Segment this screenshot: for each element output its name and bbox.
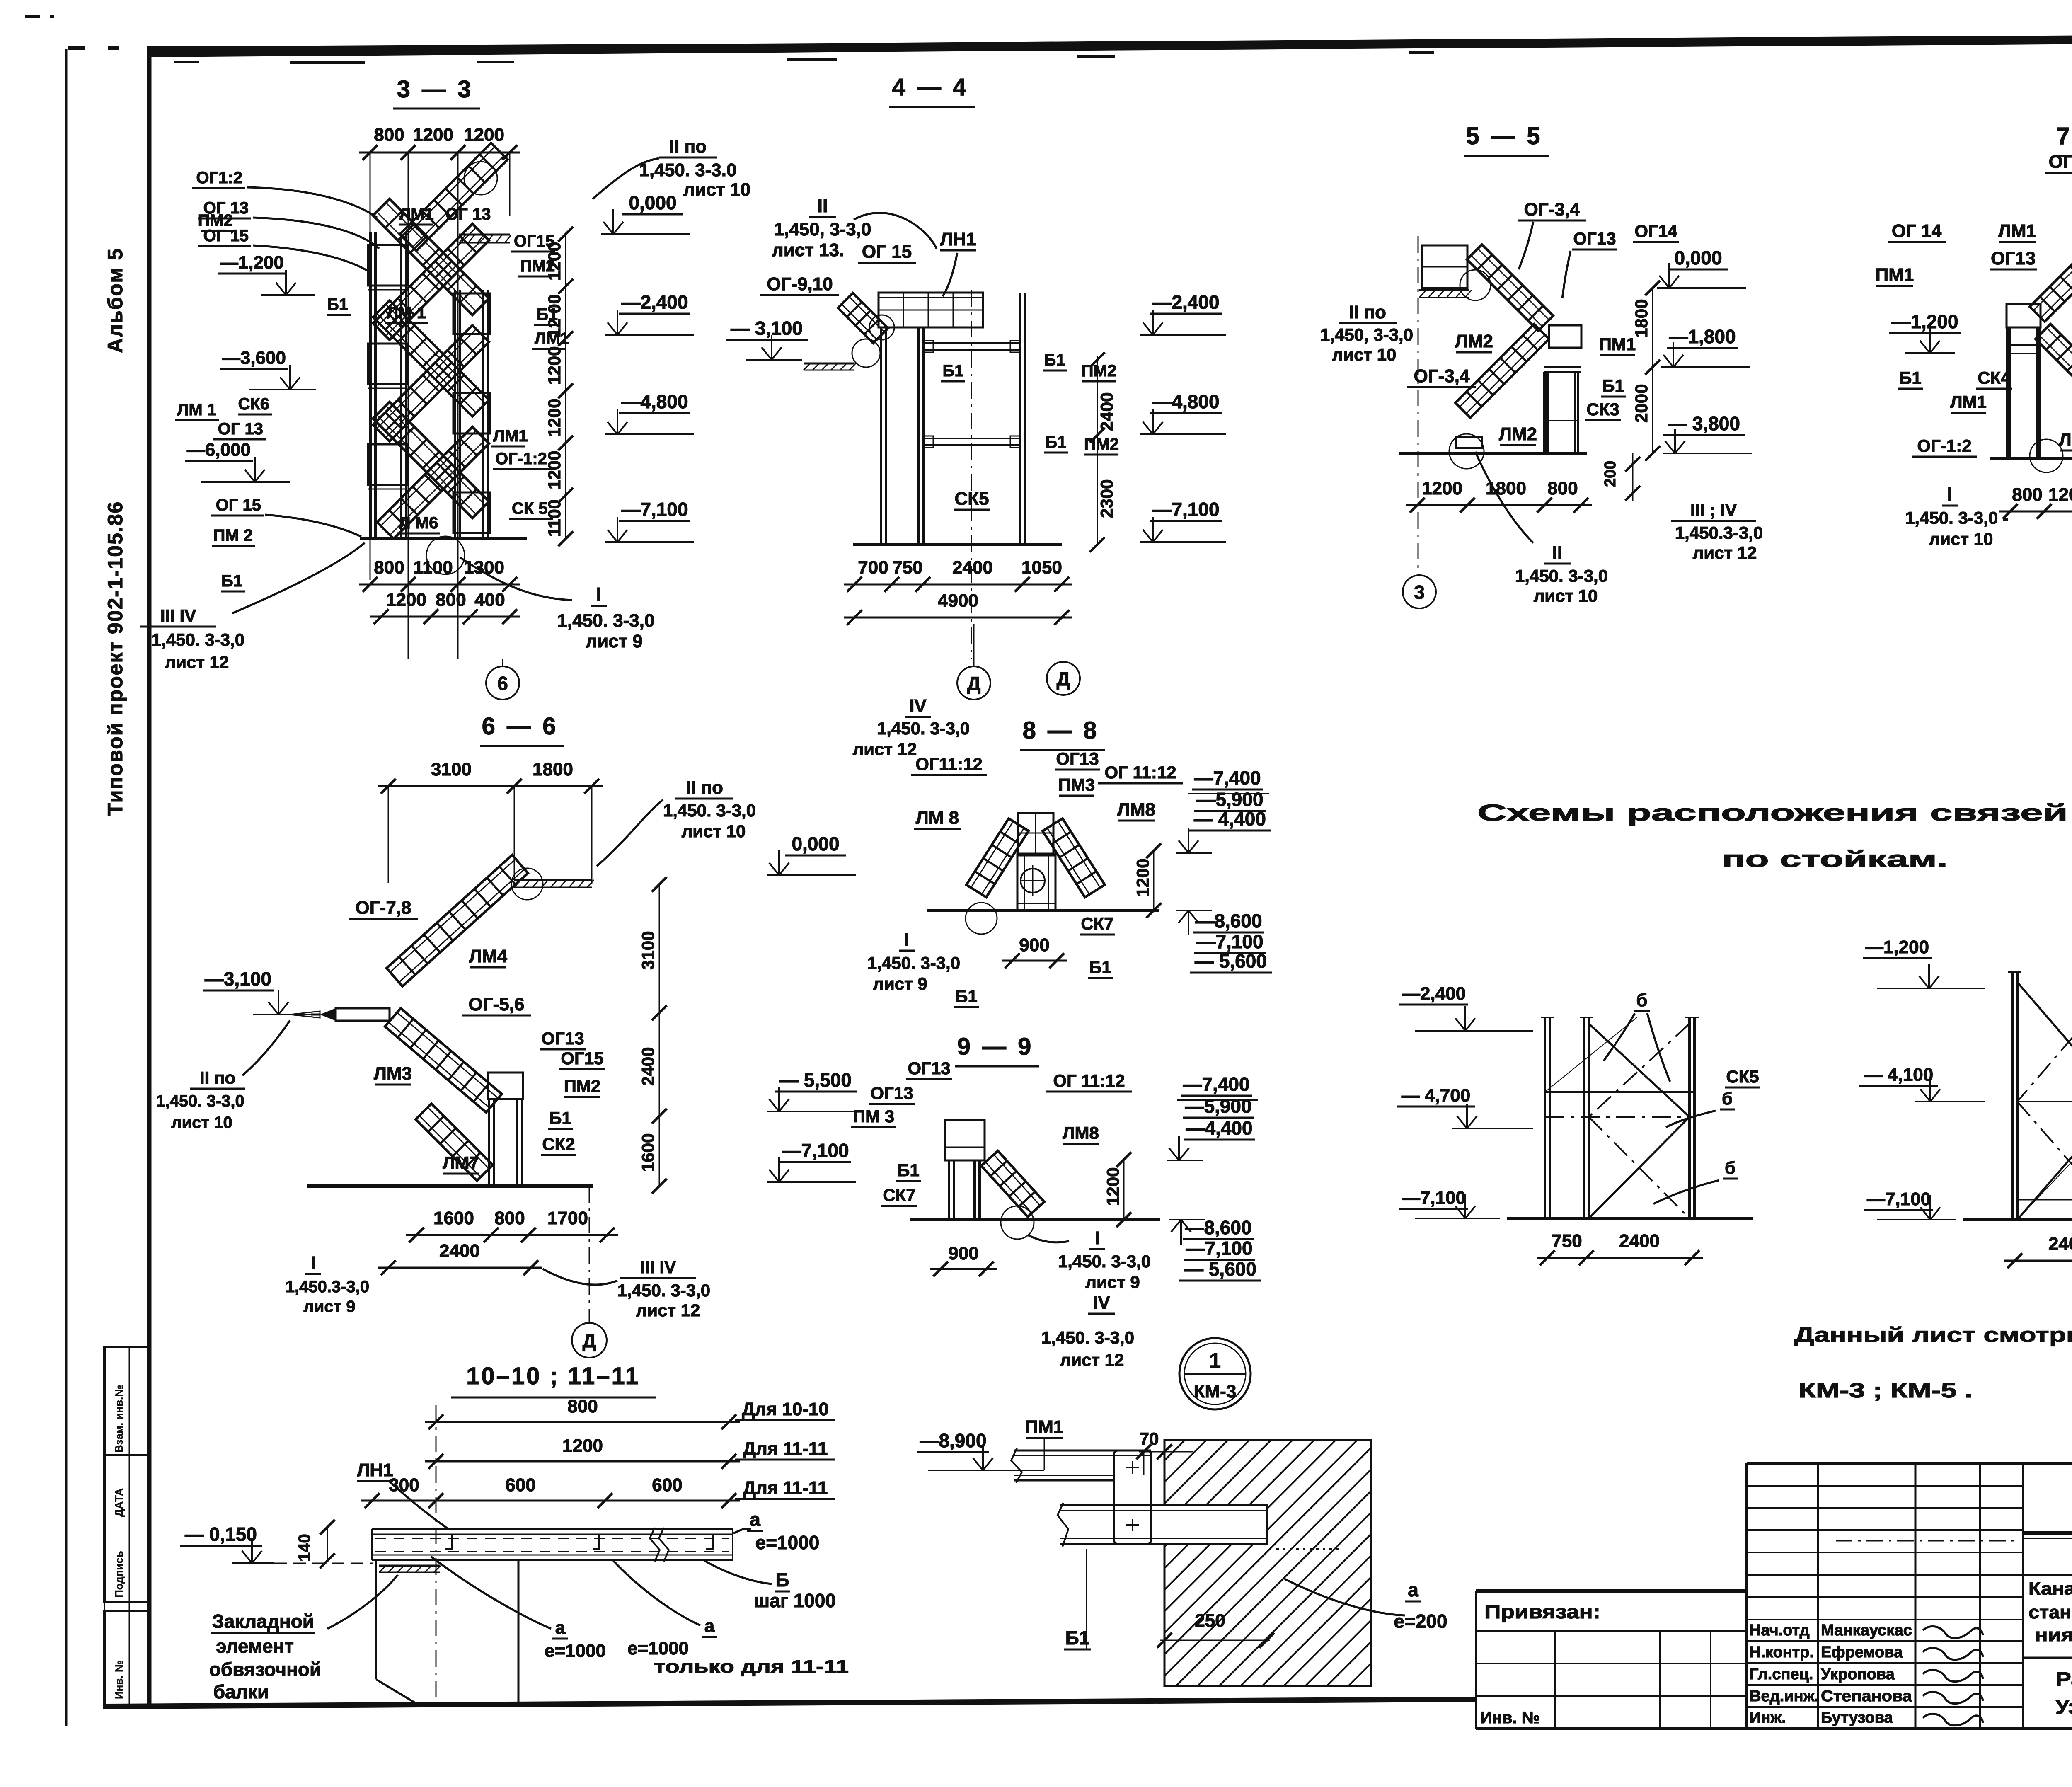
svg-text:Б1: Б1 xyxy=(1899,368,1922,387)
svg-text:—7,100: —7,100 xyxy=(1867,1189,1931,1209)
svg-text:а: а xyxy=(1408,1579,1418,1601)
svg-text:—6,000: —6,000 xyxy=(187,440,251,460)
svg-text:1,450. 3-3,0: 1,450. 3-3,0 xyxy=(1058,1252,1151,1271)
svg-text:140: 140 xyxy=(295,1534,314,1562)
svg-text:—3,600: —3,600 xyxy=(222,348,286,368)
svg-text:б: б xyxy=(1725,1158,1736,1177)
svg-text:4 — 4: 4 — 4 xyxy=(892,74,969,101)
svg-text:ЛМ3: ЛМ3 xyxy=(374,1063,412,1084)
svg-text:2400: 2400 xyxy=(2048,1234,2072,1254)
svg-text:Укропова: Укропова xyxy=(1821,1666,1895,1683)
svg-text:II по: II по xyxy=(686,777,723,798)
svg-text:ЛМ 1: ЛМ 1 xyxy=(387,304,426,322)
svg-text:Б1: Б1 xyxy=(1089,957,1111,977)
svg-text:станция при глубине заложе-: станция при глубине заложе- xyxy=(2028,1602,2072,1622)
svg-text:II: II xyxy=(817,195,828,216)
svg-text:1,450.3-3,0: 1,450.3-3,0 xyxy=(286,1278,369,1296)
svg-text:б: б xyxy=(1722,1089,1733,1108)
svg-text:— 5,600: — 5,600 xyxy=(1195,950,1267,972)
svg-text:ОГ14: ОГ14 xyxy=(1634,221,1677,241)
svg-text:ния коллектора 5,5 м.: ния коллектора 5,5 м. xyxy=(2035,1625,2072,1645)
svg-text:—1,800: —1,800 xyxy=(1669,326,1736,347)
svg-text:ОГ11:12: ОГ11:12 xyxy=(915,754,983,774)
svg-text:—4,800: —4,800 xyxy=(1152,391,1219,412)
svg-text:1200: 1200 xyxy=(1103,1167,1123,1206)
svg-text:балки: балки xyxy=(213,1681,269,1702)
svg-text:Разрезы 3-3 ÷ 11-11: Разрезы 3-3 ÷ 11-11 xyxy=(2055,1668,2072,1690)
svg-text:9 — 9: 9 — 9 xyxy=(957,1033,1034,1060)
svg-text:—7,100: —7,100 xyxy=(1196,931,1263,952)
svg-text:СК7: СК7 xyxy=(1081,914,1113,933)
svg-text:КМ-3: КМ-3 xyxy=(1194,1381,1237,1402)
svg-text:1,450, 3-3,0: 1,450, 3-3,0 xyxy=(1320,325,1413,344)
svg-text:лист 10: лист 10 xyxy=(1534,586,1598,605)
svg-text:лист 12: лист 12 xyxy=(1060,1350,1124,1370)
svg-text:1,450. 3-3,0: 1,450. 3-3,0 xyxy=(663,801,756,820)
svg-text:—7,100: —7,100 xyxy=(782,1140,849,1161)
svg-text:лист 10: лист 10 xyxy=(682,821,746,841)
svg-text:1200: 1200 xyxy=(2048,484,2072,505)
svg-text:б: б xyxy=(1636,990,1647,1010)
svg-text:1200: 1200 xyxy=(386,590,426,610)
svg-text:I: I xyxy=(1095,1228,1100,1248)
svg-text:— 3,100: — 3,100 xyxy=(731,317,803,339)
svg-text:только для 11-11: только для 11-11 xyxy=(654,1656,849,1677)
svg-text:лист 10: лист 10 xyxy=(171,1114,232,1132)
svg-text:ПМ3: ПМ3 xyxy=(1058,775,1095,794)
svg-text:лист 12: лист 12 xyxy=(853,739,917,759)
svg-text:8 — 8: 8 — 8 xyxy=(1023,717,1099,744)
svg-text:—7,100: —7,100 xyxy=(1402,1188,1466,1208)
svg-text:800: 800 xyxy=(567,1396,598,1417)
svg-text:1,450. 3-3,0: 1,450. 3-3,0 xyxy=(156,1092,244,1110)
svg-text:ПМ1: ПМ1 xyxy=(1599,334,1636,354)
svg-text:Б1: Б1 xyxy=(897,1160,920,1180)
svg-text:Канализационная насосная: Канализационная насосная xyxy=(2028,1579,2072,1599)
svg-text:1300: 1300 xyxy=(464,557,504,578)
svg-text:800: 800 xyxy=(436,590,466,610)
svg-text:лист 13.: лист 13. xyxy=(772,240,844,260)
svg-text:ЛМ 1: ЛМ 1 xyxy=(177,401,216,419)
svg-text:1: 1 xyxy=(1209,1349,1221,1372)
svg-text:Инж.: Инж. xyxy=(1750,1709,1786,1726)
svg-text:ОГ-3,4: ОГ-3,4 xyxy=(1414,366,1470,386)
svg-text:III IV: III IV xyxy=(640,1257,676,1277)
svg-text:2400: 2400 xyxy=(1619,1231,1660,1251)
svg-text:1,450. 3-3,0: 1,450. 3-3,0 xyxy=(867,953,960,973)
svg-text:ОГ 13: ОГ 13 xyxy=(445,205,491,223)
svg-text:е=1000: е=1000 xyxy=(755,1532,820,1553)
svg-text:—5,900: —5,900 xyxy=(1196,789,1263,810)
svg-text:ЛН1: ЛН1 xyxy=(357,1460,393,1480)
svg-text:6 — 6: 6 — 6 xyxy=(482,713,559,740)
svg-text:3100: 3100 xyxy=(431,759,472,780)
svg-text:ЛМ 8: ЛМ 8 xyxy=(916,808,959,828)
svg-text:800: 800 xyxy=(494,1208,525,1228)
svg-text:200: 200 xyxy=(1602,461,1619,487)
svg-text:10–10 ; 11–11: 10–10 ; 11–11 xyxy=(466,1363,640,1390)
svg-text:ПМ2: ПМ2 xyxy=(1082,362,1116,380)
svg-text:Б1: Б1 xyxy=(1044,351,1065,369)
svg-text:—4,400: —4,400 xyxy=(1186,1117,1252,1139)
svg-text:Для 11-11: Для 11-11 xyxy=(743,1478,828,1498)
svg-text:1800: 1800 xyxy=(1631,299,1651,338)
svg-text:—2,400: —2,400 xyxy=(1402,983,1466,1004)
svg-text:1,450. 3-3,0 -: 1,450. 3-3,0 - xyxy=(1905,508,2009,528)
svg-text:1,450. 3-3,0: 1,450. 3-3,0 xyxy=(877,719,970,738)
svg-text:—7,100: —7,100 xyxy=(1186,1237,1252,1259)
svg-text:ЛМ7: ЛМ7 xyxy=(443,1153,479,1172)
svg-text:Н.контр.: Н.контр. xyxy=(1750,1644,1814,1661)
svg-text:—7,100: —7,100 xyxy=(1152,499,1219,520)
svg-text:лист 12: лист 12 xyxy=(636,1300,700,1320)
svg-text:750: 750 xyxy=(1552,1231,1582,1251)
svg-text:ОГ 13: ОГ 13 xyxy=(218,420,263,438)
svg-text:ОГ 11:12: ОГ 11:12 xyxy=(1104,763,1176,782)
svg-text:Вед.инж.: Вед.инж. xyxy=(1750,1688,1819,1705)
svg-text:Б1: Б1 xyxy=(1602,376,1624,395)
svg-text:Ефремова: Ефремова xyxy=(1821,1644,1903,1661)
svg-text:—1,200: —1,200 xyxy=(1865,937,1929,957)
svg-text:СК 5: СК 5 xyxy=(512,499,548,518)
svg-text:800: 800 xyxy=(374,125,404,145)
svg-text:ОГ-1:2: ОГ-1:2 xyxy=(495,450,547,468)
svg-text:1600: 1600 xyxy=(433,1208,474,1228)
svg-text:—4,800: —4,800 xyxy=(621,391,688,412)
svg-text:1800: 1800 xyxy=(1486,478,1526,499)
svg-text:400: 400 xyxy=(474,590,505,610)
svg-text:— 5,600: — 5,600 xyxy=(1184,1258,1256,1280)
svg-text:1200: 1200 xyxy=(1422,478,1462,499)
svg-text:1100: 1100 xyxy=(413,557,453,578)
svg-text:—1,200: —1,200 xyxy=(220,252,284,273)
svg-text:е=1000: е=1000 xyxy=(627,1638,689,1659)
svg-text:лист 9: лист 9 xyxy=(1085,1272,1140,1292)
svg-text:Данный лист смотри совместно с: Данный лист смотри совместно с листом xyxy=(1794,1323,2072,1346)
svg-text:ОГ-7,8: ОГ-7,8 xyxy=(356,898,411,918)
svg-text:лист 9: лист 9 xyxy=(873,974,927,993)
svg-text:I: I xyxy=(1947,483,1953,505)
svg-text:ОГ 11:12: ОГ 11:12 xyxy=(1053,1071,1125,1090)
svg-text:3100: 3100 xyxy=(638,931,658,970)
svg-text:I: I xyxy=(311,1253,316,1273)
svg-text:Д: Д xyxy=(1057,668,1070,690)
svg-text:а: а xyxy=(704,1616,715,1636)
svg-text:1050: 1050 xyxy=(1021,557,1062,578)
svg-text:II по: II по xyxy=(669,136,707,157)
svg-text:7 — 7: 7 — 7 xyxy=(2057,123,2072,150)
svg-text:1600: 1600 xyxy=(638,1133,658,1172)
svg-text:Д: Д xyxy=(583,1330,596,1351)
svg-text:—7,100: —7,100 xyxy=(621,499,688,520)
svg-text:1100: 1100 xyxy=(545,499,564,537)
svg-text:ЛМ8: ЛМ8 xyxy=(1117,799,1155,820)
svg-text:Манкаускас: Манкаускас xyxy=(1821,1622,1912,1639)
svg-text:ОГ-3,4: ОГ-3,4 xyxy=(1524,199,1581,220)
svg-text:Бутузова: Бутузова xyxy=(1821,1709,1893,1726)
svg-text:1200: 1200 xyxy=(545,346,564,385)
svg-text:IV: IV xyxy=(909,696,927,716)
svg-text:1200: 1200 xyxy=(545,242,564,281)
svg-text:900: 900 xyxy=(948,1243,978,1264)
svg-text:ОГ-5,6: ОГ-5,6 xyxy=(469,994,525,1015)
svg-text:III ; IV: III ; IV xyxy=(1690,500,1737,520)
svg-text:ОГ-12: ОГ-12 xyxy=(2049,152,2072,172)
svg-text:по стойкам.: по стойкам. xyxy=(1722,846,1948,872)
svg-text:600: 600 xyxy=(505,1475,535,1495)
svg-text:Закладной: Закладной xyxy=(212,1610,314,1632)
svg-text:ДАТА: ДАТА xyxy=(113,1488,125,1517)
svg-text:Гл.спец.: Гл.спец. xyxy=(1750,1666,1813,1683)
svg-text:Привязан:: Привязан: xyxy=(1484,1601,1600,1622)
svg-text:IV: IV xyxy=(1093,1293,1110,1313)
svg-text:ЛМ8: ЛМ8 xyxy=(1063,1123,1099,1143)
svg-text:— 3,800: — 3,800 xyxy=(1668,413,1740,434)
svg-text:ОГ13: ОГ13 xyxy=(1056,749,1099,768)
svg-text:800: 800 xyxy=(374,557,404,578)
svg-text:ЛМ2: ЛМ2 xyxy=(1499,424,1537,444)
svg-text:СК4: СК4 xyxy=(1978,368,2011,387)
svg-text:I: I xyxy=(904,930,909,950)
svg-text:900: 900 xyxy=(1019,935,1049,955)
svg-text:— 4,100: — 4,100 xyxy=(1864,1065,1933,1085)
svg-text:250: 250 xyxy=(1195,1610,1225,1631)
svg-text:Типовой проект 902-1-105.86: Типовой проект 902-1-105.86 xyxy=(104,501,127,816)
svg-text:Для 11-11: Для 11-11 xyxy=(743,1438,828,1459)
svg-text:ОГ13: ОГ13 xyxy=(1991,248,2036,269)
svg-text:— 4,400: — 4,400 xyxy=(1194,808,1266,830)
svg-text:1200: 1200 xyxy=(464,125,504,145)
svg-text:ПМ2: ПМ2 xyxy=(198,211,233,230)
svg-text:—8,900: —8,900 xyxy=(920,1430,986,1451)
svg-text:3 — 3: 3 — 3 xyxy=(397,76,474,103)
svg-text:— 0,150: — 0,150 xyxy=(185,1523,257,1545)
svg-text:Б1: Б1 xyxy=(549,1108,571,1128)
svg-text:лист 10: лист 10 xyxy=(1929,529,1993,549)
svg-text:600: 600 xyxy=(652,1475,682,1495)
svg-text:ОГ15: ОГ15 xyxy=(561,1048,603,1068)
svg-text:лист 9: лист 9 xyxy=(303,1298,355,1316)
svg-text:Б1: Б1 xyxy=(327,295,348,314)
svg-text:1,450. 3-3,0: 1,450. 3-3,0 xyxy=(617,1281,710,1300)
svg-text:СК6: СК6 xyxy=(238,395,269,413)
svg-text:—3,100: —3,100 xyxy=(205,968,271,990)
svg-text:Подпись: Подпись xyxy=(113,1551,125,1598)
svg-text:—5,900: —5,900 xyxy=(1185,1095,1251,1117)
svg-text:1,450. 3-3,0: 1,450. 3-3,0 xyxy=(1515,566,1608,586)
svg-text:1,450, 3-3,0: 1,450, 3-3,0 xyxy=(774,219,871,240)
svg-text:элемент: элемент xyxy=(216,1635,294,1657)
svg-text:е=200: е=200 xyxy=(1394,1610,1447,1632)
svg-text:Д: Д xyxy=(967,673,981,694)
svg-text:ЛН1: ЛН1 xyxy=(940,229,976,249)
svg-text:Л М6: Л М6 xyxy=(399,514,438,532)
svg-text:а: а xyxy=(750,1509,760,1530)
svg-text:1,450. 3-3,0: 1,450. 3-3,0 xyxy=(152,630,244,649)
svg-text:1,450.3-3,0: 1,450.3-3,0 xyxy=(1675,523,1763,542)
svg-text:ОГ13: ОГ13 xyxy=(870,1083,913,1103)
svg-text:Степанова: Степанова xyxy=(1821,1688,1912,1705)
svg-text:СК5: СК5 xyxy=(1726,1067,1759,1086)
svg-text:Б1: Б1 xyxy=(221,572,242,590)
svg-text:2400: 2400 xyxy=(638,1047,658,1086)
svg-text:СК7: СК7 xyxy=(883,1185,915,1205)
svg-text:— 5,500: — 5,500 xyxy=(779,1069,852,1091)
svg-text:ОГ 15: ОГ 15 xyxy=(216,496,261,514)
svg-text:ПМ1: ПМ1 xyxy=(1025,1417,1064,1437)
svg-text:750: 750 xyxy=(892,557,922,578)
svg-text:ПМ2: ПМ2 xyxy=(1084,435,1119,453)
svg-text:0,000: 0,000 xyxy=(792,833,839,855)
svg-text:1,450. 3-3,0: 1,450. 3-3,0 xyxy=(1041,1328,1134,1347)
svg-text:ОГ13: ОГ13 xyxy=(541,1029,584,1048)
svg-text:III IV: III IV xyxy=(160,606,196,625)
svg-text:—1,200: —1,200 xyxy=(1891,311,1958,332)
svg-text:6: 6 xyxy=(497,673,508,694)
svg-text:СК2: СК2 xyxy=(542,1134,575,1154)
svg-text:Узел 1.: Узел 1. xyxy=(2055,1696,2072,1718)
svg-text:ЛМ1: ЛМ1 xyxy=(2059,430,2072,449)
svg-text:Взам. инв.№: Взам. инв.№ xyxy=(113,1385,125,1453)
svg-text:Б1: Б1 xyxy=(955,986,978,1006)
svg-text:лист 12: лист 12 xyxy=(1693,543,1757,562)
svg-text:II по: II по xyxy=(200,1068,235,1087)
svg-text:—2,400: —2,400 xyxy=(621,291,688,313)
svg-text:ЛМ1: ЛМ1 xyxy=(1998,221,2036,241)
svg-text:1,450. 3-3.0: 1,450. 3-3.0 xyxy=(639,160,737,180)
svg-text:3: 3 xyxy=(1414,581,1425,603)
svg-text:1700: 1700 xyxy=(547,1208,588,1228)
svg-text:ПМ 2: ПМ 2 xyxy=(213,526,253,545)
svg-text:Б1: Б1 xyxy=(943,362,964,380)
svg-text:ОГ 15: ОГ 15 xyxy=(862,242,912,262)
svg-text:ПМ2: ПМ2 xyxy=(564,1076,601,1096)
svg-text:ОГ-1:2: ОГ-1:2 xyxy=(1917,436,1971,455)
svg-text:0,000: 0,000 xyxy=(1674,247,1722,269)
svg-text:ОГ1:2: ОГ1:2 xyxy=(196,169,242,187)
svg-text:Б1: Б1 xyxy=(1046,433,1067,451)
svg-text:1200: 1200 xyxy=(1133,859,1152,897)
svg-text:Для 10-10: Для 10-10 xyxy=(742,1399,829,1419)
svg-text:ОГ13: ОГ13 xyxy=(1573,229,1616,248)
svg-text:ОГ 14: ОГ 14 xyxy=(1892,221,1942,241)
svg-text:ЛМ1: ЛМ1 xyxy=(1950,392,1987,412)
svg-text:800: 800 xyxy=(1547,478,1578,499)
svg-text:лист 12: лист 12 xyxy=(165,652,229,672)
svg-text:5 — 5: 5 — 5 xyxy=(1466,123,1543,150)
svg-text:шаг 1000: шаг 1000 xyxy=(754,1590,836,1611)
svg-text:1,450. 3-3,0: 1,450. 3-3,0 xyxy=(557,610,655,631)
svg-text:II по: II по xyxy=(1349,302,1386,322)
svg-text:ЛМ1: ЛМ1 xyxy=(493,427,528,445)
svg-text:Альбом 5: Альбом 5 xyxy=(104,248,127,353)
svg-text:Б: Б xyxy=(775,1569,789,1591)
svg-text:Схемы расположения связей: Схемы расположения связей xyxy=(1477,799,2068,826)
svg-text:ПМ1: ПМ1 xyxy=(1876,265,1914,285)
svg-text:2400: 2400 xyxy=(439,1241,480,1261)
svg-text:ПМ 3: ПМ 3 xyxy=(853,1107,894,1126)
svg-text:ЛМ1: ЛМ1 xyxy=(399,205,434,223)
svg-text:II: II xyxy=(1552,542,1562,563)
svg-text:1200: 1200 xyxy=(545,399,564,437)
svg-text:— 4,700: — 4,700 xyxy=(1402,1085,1470,1106)
svg-text:2000: 2000 xyxy=(1631,384,1651,423)
svg-text:Инв. №: Инв. № xyxy=(1480,1709,1540,1727)
svg-text:СК3: СК3 xyxy=(1586,400,1619,419)
svg-text:ЛМ4: ЛМ4 xyxy=(469,946,508,966)
svg-text:1200: 1200 xyxy=(545,451,564,489)
svg-text:0,000: 0,000 xyxy=(629,192,676,213)
svg-text:2400: 2400 xyxy=(952,557,993,578)
svg-text:лист 10: лист 10 xyxy=(1332,345,1397,364)
svg-text:—8,600: —8,600 xyxy=(1195,910,1262,932)
svg-text:2300: 2300 xyxy=(1097,479,1116,518)
svg-text:800: 800 xyxy=(2012,484,2042,505)
svg-text:—2,400: —2,400 xyxy=(1152,291,1219,313)
svg-text:ОГ-9,10: ОГ-9,10 xyxy=(767,274,833,294)
svg-text:12 00: 12 00 xyxy=(545,294,564,338)
svg-text:ОГ13: ОГ13 xyxy=(908,1058,950,1078)
svg-text:1200: 1200 xyxy=(413,125,453,145)
svg-text:—7,400: —7,400 xyxy=(1194,767,1261,789)
svg-text:е=1000: е=1000 xyxy=(545,1641,606,1661)
svg-text:а: а xyxy=(555,1618,566,1638)
svg-text:1200: 1200 xyxy=(562,1436,603,1456)
svg-text:I: I xyxy=(596,584,602,605)
svg-text:лист 10: лист 10 xyxy=(683,179,750,200)
svg-text:лист 9: лист 9 xyxy=(586,631,643,651)
svg-text:ЛМ2: ЛМ2 xyxy=(1455,331,1493,351)
svg-text:обвязочной: обвязочной xyxy=(209,1659,322,1680)
svg-text:КМ-3 ; КМ-5 .: КМ-3 ; КМ-5 . xyxy=(1798,1379,1973,1402)
svg-text:4900: 4900 xyxy=(938,591,978,611)
svg-text:Инв. №: Инв. № xyxy=(113,1660,125,1699)
svg-text:1800: 1800 xyxy=(533,759,573,780)
svg-text:—7,400: —7,400 xyxy=(1183,1073,1249,1095)
svg-text:2400: 2400 xyxy=(1097,392,1116,431)
svg-text:700: 700 xyxy=(858,557,888,578)
svg-text:Нач.отд: Нач.отд xyxy=(1750,1622,1810,1639)
